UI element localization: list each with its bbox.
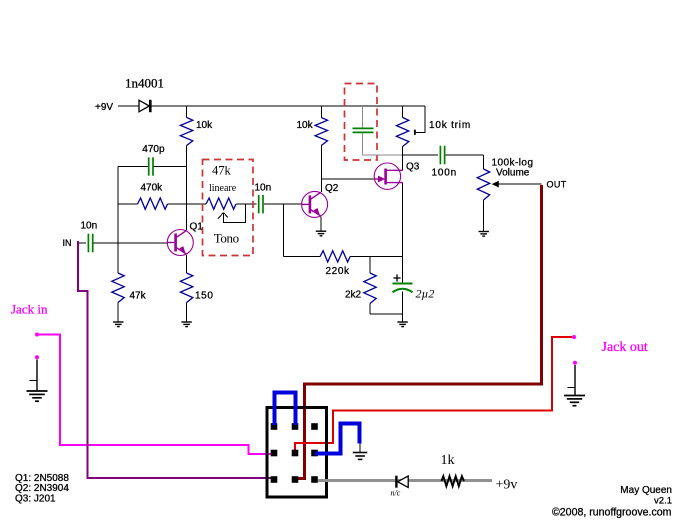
- svg-text:OUT: OUT: [547, 180, 567, 190]
- capacitor C6 2u2 electrolytic: [402, 257, 404, 283]
- ground (47k): [113, 321, 123, 323]
- blue wire (switch to ground): [315, 424, 360, 454]
- svg-text:1k: 1k: [441, 453, 455, 468]
- transistor Q3 J201: [374, 163, 400, 189]
- LED D2: [395, 476, 397, 488]
- gray wire (bypass cap leads): [362, 106, 364, 128]
- diode D1 1n4001: [139, 100, 149, 112]
- svg-text:10k: 10k: [297, 120, 314, 131]
- jack out sleeve dot: [573, 361, 577, 365]
- wire Q3 source down to feedback node: [402, 183, 404, 257]
- svg-text:470k: 470k: [141, 183, 164, 194]
- ground (Q2): [316, 230, 326, 232]
- capacitor C1 470p: [118, 166, 148, 168]
- svg-text:n/c: n/c: [391, 489, 401, 498]
- svg-text:Q2: 2N3904: Q2: 2N3904: [15, 483, 69, 494]
- svg-text:Q1: Q1: [190, 222, 204, 233]
- jack out sleeve lead + tick: [574, 365, 576, 395]
- resistor R7 2k2: [369, 257, 371, 273]
- wire junction/vertical x=284 (Q2 base to 220k): [283, 204, 285, 257]
- ground (blue wire): [353, 452, 367, 454]
- +9V supply rail wire: [118, 105, 139, 107]
- transistor Q2 2N3904: [302, 191, 328, 217]
- capacitor C3 10n (input): [78, 242, 86, 244]
- svg-text:lineare: lineare: [209, 183, 237, 194]
- svg-text:2µ2: 2µ2: [416, 287, 435, 301]
- svg-text:150: 150: [195, 291, 214, 302]
- resistor R8 1k: [442, 476, 465, 486]
- wire Q2 collector to Q3 gate: [321, 178, 376, 180]
- wiper arrow of VR3: [492, 181, 499, 188]
- resistor R6 220k: [284, 256, 320, 258]
- svg-text:©2008, runoffgroove.com: ©2008, runoffgroove.com: [552, 506, 672, 518]
- jack out tip dot: [572, 335, 576, 339]
- trim wiper loop: [416, 106, 425, 132]
- svg-text:+9V: +9V: [95, 102, 113, 113]
- dark red wire (OUT to switch): [297, 185, 542, 479]
- blue jumper wire (switch top): [275, 392, 296, 425]
- wire left vertical (Q1 base node): [117, 167, 119, 274]
- jack in sleeve dot: [35, 355, 39, 359]
- dashed box Tono: [203, 160, 254, 256]
- gray wire (switch to LED/9v): [318, 479, 492, 482]
- magenta wire (input jack to switch): [39, 335, 272, 455]
- svg-text:10n: 10n: [81, 221, 98, 232]
- resistor R4 150: [186, 255, 188, 273]
- svg-text:47k: 47k: [212, 164, 232, 178]
- resistor R1 10k: [186, 106, 188, 118]
- resistor R3 47k: [112, 273, 124, 303]
- svg-text:Jack in: Jack in: [11, 302, 48, 317]
- svg-text:Q3: Q3: [406, 162, 420, 173]
- svg-text:1n4001: 1n4001: [125, 76, 164, 91]
- potentiometer VR3 100k-log Volume: [483, 155, 485, 169]
- svg-text:Volume: Volume: [496, 168, 530, 179]
- capacitor C2 10n (mid): [258, 195, 260, 213]
- svg-text:2k2: 2k2: [345, 290, 362, 301]
- potentiometer VR1 47k Tono: [206, 198, 236, 209]
- switch 3PDT box: [267, 408, 327, 498]
- svg-text:47k: 47k: [130, 291, 147, 302]
- svg-text:May Queen: May Queen: [620, 485, 672, 496]
- jack in sleeve lead + tick: [36, 360, 38, 391]
- svg-text:10k trim: 10k trim: [429, 120, 471, 131]
- ground (jack in): [27, 390, 48, 392]
- ground (C6): [397, 321, 407, 323]
- svg-text:220k: 220k: [326, 266, 350, 277]
- svg-text:Tono: Tono: [214, 231, 239, 246]
- ground (150): [181, 321, 191, 323]
- svg-text:100n: 100n: [432, 168, 457, 179]
- ground (Volume): [479, 231, 489, 233]
- svg-text:470p: 470p: [142, 144, 165, 155]
- wire Q2 emitter to ground: [320, 217, 322, 231]
- plus sign of C6: [393, 277, 400, 279]
- jack in tip dot: [35, 333, 39, 337]
- trim pot VR2 10k: [402, 106, 404, 118]
- svg-text:Q2: Q2: [325, 183, 339, 194]
- svg-text:+9v: +9v: [496, 478, 518, 493]
- capacitor C5 100n: [439, 146, 441, 165]
- switch pads: [271, 423, 278, 430]
- svg-text:Q3: J201: Q3: J201: [15, 494, 56, 505]
- red wire (switch to output jack): [295, 337, 572, 450]
- transistor Q1 2N5088: [167, 230, 193, 256]
- svg-text:10k: 10k: [196, 120, 213, 131]
- wire output node: [403, 154, 439, 156]
- resistor R2 470k: [118, 203, 138, 205]
- ground (jack out): [564, 395, 585, 397]
- svg-text:v2.1: v2.1: [654, 496, 672, 507]
- purple wire (IN node to switch): [78, 241, 272, 478]
- svg-text:Jack out: Jack out: [602, 340, 648, 355]
- svg-text:IN: IN: [63, 238, 72, 248]
- svg-text:10n: 10n: [255, 183, 272, 194]
- resistor R5 10k (Q2 collector): [320, 106, 322, 118]
- wiper loop of VR1: [224, 204, 246, 223]
- dashed box (bypass cap): [345, 84, 378, 161]
- capacitor C4 (in dashed box): [353, 127, 374, 129]
